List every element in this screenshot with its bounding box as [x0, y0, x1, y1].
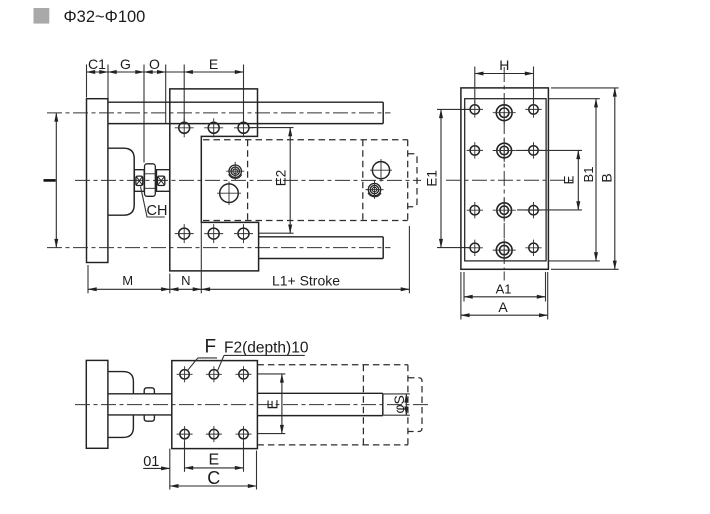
body hidden right (tv) [407, 365, 409, 445]
bolt hole bottom 2 [208, 228, 219, 239]
M ext left [87, 265, 89, 293]
piston hidden line [362, 140, 364, 221]
body hidden bottom (tv) [257, 444, 408, 446]
piston rod end [382, 393, 384, 415]
svg-text:E1: E1 [424, 170, 439, 187]
port circle left [220, 184, 239, 203]
svg-text:A1: A1 [496, 281, 512, 296]
rod top edge (left) [108, 393, 172, 395]
svg-text:B: B [599, 173, 615, 182]
svg-text:F2(depth)10: F2(depth)10 [224, 339, 309, 356]
plate hole left col row4 [470, 243, 479, 252]
svg-text:H: H [499, 57, 509, 73]
label dash (I) [44, 179, 56, 182]
dimension E bottom [185, 467, 244, 469]
dimension C1 [87, 71, 109, 73]
svg-text:E: E [561, 175, 576, 184]
svg-text:φS: φS [391, 395, 407, 413]
ext line C1/G [107, 65, 109, 102]
end plate v centerline [503, 67, 505, 269]
M/N ext plate left [169, 274, 171, 294]
dimension E (tv) [281, 374, 283, 434]
dimension E top [184, 71, 243, 73]
plate center hole row3 [497, 203, 512, 218]
dimension C [170, 485, 257, 487]
svg-text:B1: B1 [581, 167, 596, 183]
rod bottom edge (left) [108, 414, 172, 416]
dimension G [108, 71, 144, 73]
bolt hole top 2 [208, 122, 219, 133]
B ext bottom [551, 268, 619, 270]
A ext right [547, 272, 549, 320]
dimension 01 [143, 467, 170, 469]
hole ext left (tv) [184, 442, 186, 472]
flange plate [87, 99, 108, 263]
svg-text:C1: C1 [88, 56, 106, 72]
plate (top view) [172, 361, 258, 449]
phiS ext top [384, 393, 410, 395]
E ext top (tv) [258, 373, 285, 375]
plate center hole row1 [496, 105, 512, 121]
plate hole right col row3 [529, 206, 538, 215]
svg-text:A: A [498, 299, 508, 315]
port ring right [368, 183, 380, 195]
dimension A [461, 314, 548, 316]
ext line E left [183, 65, 185, 122]
phiS ext bottom [384, 414, 410, 416]
dimension H [475, 73, 534, 75]
rear tab hidden [408, 154, 417, 207]
E ext bottom (tv) [258, 433, 285, 435]
body hidden top [203, 139, 408, 141]
nut bump upper [144, 388, 154, 394]
dimension B1 [595, 99, 597, 261]
C ext right [256, 451, 258, 490]
A1 ext left [463, 272, 465, 302]
piston rod bottom edge [257, 415, 382, 417]
main centerline [75, 179, 421, 181]
A1 ext right [545, 272, 547, 302]
svg-text:L1+ Stroke: L1+ Stroke [272, 273, 340, 289]
left vertical dimension [55, 113, 57, 248]
centerline (top view) [75, 404, 431, 406]
svg-text:E: E [264, 399, 281, 409]
top guide rod bottom edge [108, 123, 383, 125]
hole ext right (tv) [243, 442, 245, 472]
svg-text:E: E [209, 56, 218, 72]
header gray square [34, 8, 50, 24]
rod x-section right [158, 176, 165, 185]
rod x-section left [136, 176, 143, 185]
ext line O right [165, 65, 167, 124]
piston hidden (tv) [362, 365, 364, 445]
dimension E1 [440, 109, 442, 247]
dimension A1 [464, 296, 546, 298]
plate hole right col row1 [529, 105, 538, 114]
H ext right [533, 67, 535, 104]
washer right [157, 170, 170, 192]
plate hole right col row4 [529, 243, 538, 252]
L1 ext right [408, 226, 410, 293]
svg-text:G: G [120, 56, 131, 72]
port circle right [372, 162, 389, 179]
svg-text:C: C [207, 468, 220, 488]
nut CH [145, 164, 156, 197]
E2 ext top [249, 127, 294, 129]
body hidden bottom [203, 220, 408, 222]
E ext top (view2) [516, 149, 582, 151]
svg-text:01: 01 [143, 454, 159, 470]
bottom guide rod bottom edge [259, 258, 384, 260]
F leader [198, 357, 217, 359]
dimension E2 [289, 128, 291, 234]
top guide rod end [382, 102, 384, 123]
front plate outline [170, 89, 259, 271]
dimension O [144, 71, 166, 73]
H ext left [474, 67, 476, 104]
top guide rod top edge [108, 101, 383, 103]
dim line gap O-E [166, 71, 185, 73]
svg-text:F: F [205, 337, 217, 358]
plate hole left col row3 [470, 206, 479, 215]
E2 ext bottom [259, 232, 294, 234]
plate hole tv r1c2 [209, 370, 218, 379]
plate hole right col row2 [529, 146, 538, 155]
E1 ext bottom [437, 247, 470, 249]
plate center hole row4 [496, 242, 512, 258]
plate center hole row2 [497, 143, 512, 158]
plate hole tv r1c3 [239, 370, 248, 379]
body hidden left [247, 140, 249, 221]
bolt hole bottom 1 [179, 228, 190, 239]
end plate h centerline [446, 179, 576, 181]
nut bump lower [144, 415, 154, 421]
plate hole tv r2c2 [209, 429, 218, 438]
B ext top [551, 87, 619, 89]
plate hole left col row1 [470, 105, 479, 114]
bottom rod centerline [47, 247, 391, 249]
plate hole tv r1c1 [180, 370, 189, 379]
svg-text:Φ32~Φ100: Φ32~Φ100 [64, 8, 146, 26]
plate hole tv r2c3 [239, 429, 248, 438]
dimension phiS [405, 394, 407, 415]
bottom guide rod end [382, 237, 384, 259]
flange (top view) [86, 360, 108, 448]
body hidden top (tv) [257, 364, 408, 366]
svg-text:CH: CH [147, 203, 168, 219]
B1 ext bottom [548, 260, 599, 262]
rear tab hidden (tv) [408, 378, 422, 432]
bottom guide rod top edge [259, 236, 384, 238]
plate left ext (tv) [169, 449, 171, 490]
washer left [134, 170, 144, 192]
plate hole left col row2 [470, 146, 479, 155]
dimension M [88, 288, 170, 290]
plate web edge ext [200, 222, 202, 293]
CH leader [141, 187, 148, 217]
E1 ext top [437, 108, 470, 110]
dimension E (view2) [577, 150, 579, 210]
dimension L1+Stroke [201, 288, 409, 290]
bolt hole top 3 [238, 122, 249, 133]
port ring left [229, 165, 241, 177]
A ext left [460, 272, 462, 320]
svg-text:E: E [208, 452, 219, 469]
ext line E right [243, 65, 245, 122]
dimension B [614, 88, 616, 269]
svg-text:M: M [122, 273, 133, 288]
top rod centerline [47, 112, 391, 114]
B1 ext top [548, 98, 599, 100]
body hidden right [407, 140, 409, 221]
plate hole tv r2c1 [180, 429, 189, 438]
svg-text:E2: E2 [273, 170, 288, 187]
svg-text:N: N [181, 273, 190, 288]
rod bracket [108, 148, 134, 215]
piston rod top edge [257, 392, 382, 394]
bolt hole top 1 [179, 122, 190, 133]
dimension N [170, 288, 202, 290]
svg-text:O: O [149, 56, 160, 72]
bracket upper (top view) [108, 372, 133, 394]
E ext bottom (view2) [517, 209, 582, 211]
ext line C1 left [86, 65, 88, 98]
ext line G/O (nut face) [143, 65, 145, 163]
end plate inner [465, 99, 546, 261]
F2 leader [224, 354, 305, 356]
end plate outer [461, 88, 549, 269]
bolt hole bottom 3 [238, 228, 249, 239]
bracket lower (top view) [108, 415, 133, 438]
